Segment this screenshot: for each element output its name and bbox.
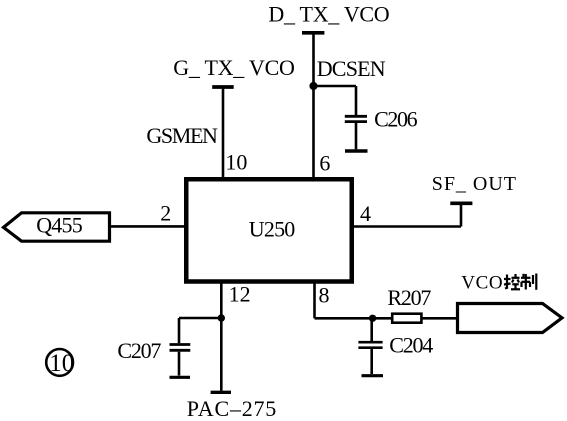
- svg-text:8: 8: [319, 283, 330, 308]
- svg-text:PAC–275: PAC–275: [187, 396, 276, 421]
- svg-text:DCSEN: DCSEN: [317, 56, 386, 81]
- svg-text:U250: U250: [249, 217, 295, 242]
- svg-text:2: 2: [160, 201, 171, 226]
- svg-text:SF_ OUT: SF_ OUT: [432, 173, 516, 195]
- svg-text:C207: C207: [117, 338, 161, 363]
- svg-text:GSMEN: GSMEN: [146, 123, 218, 148]
- svg-text:G_ TX_ VCO: G_ TX_ VCO: [173, 55, 295, 80]
- svg-text:C204: C204: [389, 332, 433, 357]
- svg-text:12: 12: [229, 282, 251, 307]
- svg-text:6: 6: [319, 151, 330, 176]
- svg-text:D_ TX_ VCO: D_ TX_ VCO: [268, 1, 389, 26]
- svg-text:10: 10: [225, 150, 247, 175]
- svg-text:R207: R207: [387, 285, 431, 310]
- svg-text:VCO: VCO: [461, 272, 502, 293]
- svg-text:10: 10: [49, 350, 74, 377]
- svg-text:Q455: Q455: [36, 212, 82, 237]
- svg-text:4: 4: [360, 201, 371, 226]
- svg-text:C206: C206: [374, 107, 418, 132]
